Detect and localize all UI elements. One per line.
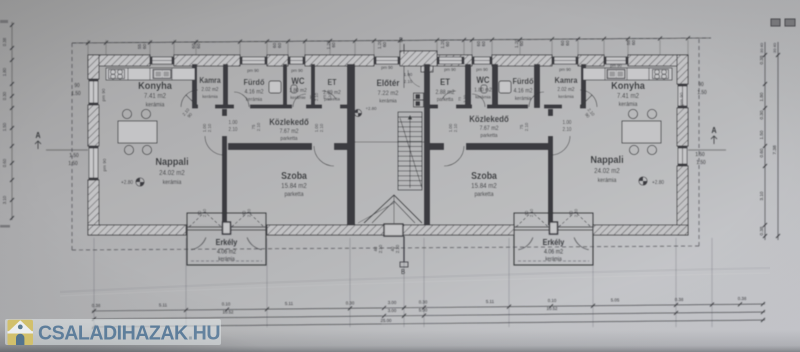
svg-text:Erkély: Erkély xyxy=(216,238,238,248)
right dim chain xyxy=(759,42,780,240)
wall wc-furdo right xyxy=(492,64,498,108)
svg-text:24.02 m2: 24.02 m2 xyxy=(594,168,620,175)
eloter floor line xyxy=(355,141,424,143)
window labels left margin xyxy=(68,83,80,167)
svg-text:90: 90 xyxy=(74,83,79,89)
svg-text:2.88 m2: 2.88 m2 xyxy=(435,90,454,96)
svg-text:1.80: 1.80 xyxy=(759,92,764,101)
stairwell left wall xyxy=(347,64,355,225)
svg-text:1.50: 1.50 xyxy=(69,153,78,159)
left wall xyxy=(88,55,99,235)
erkely label right xyxy=(543,238,565,263)
svg-text:pm 90: pm 90 xyxy=(291,68,303,73)
svg-text:B: B xyxy=(401,269,406,276)
nappali-szoba wall right xyxy=(548,109,553,225)
svg-text:3.10: 3.10 xyxy=(759,191,764,200)
svg-text:30 40: 30 40 xyxy=(759,42,764,53)
svg-text:A: A xyxy=(35,131,41,141)
svg-text:Fürdő: Fürdő xyxy=(244,78,265,88)
left dim chain xyxy=(0,20,14,228)
section marker A left xyxy=(35,131,88,150)
corner shade xyxy=(0,282,400,352)
washbasin furdo left xyxy=(269,81,281,93)
door nappali left xyxy=(205,136,224,155)
door furdo right xyxy=(529,92,544,107)
label konyha left xyxy=(138,81,172,109)
door furdo left xyxy=(234,92,249,107)
porch door post xyxy=(384,224,403,236)
label szoba left xyxy=(281,169,308,198)
pm 90 labels top xyxy=(247,63,622,73)
svg-text:60: 60 xyxy=(565,40,570,46)
balcony door dims right xyxy=(524,208,579,217)
svg-text:pm 90: pm 90 xyxy=(679,92,684,105)
label furdo right xyxy=(513,77,534,103)
dining table left xyxy=(118,109,157,154)
svg-text:2.10: 2.10 xyxy=(529,208,534,217)
bottom wall xyxy=(88,225,688,235)
svg-text:2.10: 2.10 xyxy=(229,127,238,133)
door et left xyxy=(322,91,336,99)
svg-text:2.10: 2.10 xyxy=(256,122,261,131)
svg-text:0.38: 0.38 xyxy=(2,37,7,46)
svg-text:Kamra: Kamra xyxy=(199,76,221,86)
watermark bar xyxy=(5,319,221,345)
top dimension line xyxy=(72,36,711,45)
svg-text:Szoba: Szoba xyxy=(281,169,308,181)
svg-text:15.84 m2: 15.84 m2 xyxy=(281,183,307,190)
svg-text:2.10: 2.10 xyxy=(202,208,207,217)
erkely outline left xyxy=(187,213,266,265)
label furdo left xyxy=(244,78,265,104)
label wc left xyxy=(289,76,307,101)
bottom extension lines xyxy=(94,238,712,327)
svg-text:2.10: 2.10 xyxy=(563,127,572,133)
svg-text:0.60: 0.60 xyxy=(2,158,7,167)
svg-text:7.38: 7.38 xyxy=(772,145,778,155)
stair lower flight xyxy=(358,195,422,223)
label et left xyxy=(323,78,341,102)
svg-text:1.50: 1.50 xyxy=(695,152,704,158)
svg-text:+2.80: +2.80 xyxy=(652,180,664,186)
svg-text:2.10: 2.10 xyxy=(395,244,400,253)
entry door dims xyxy=(404,72,413,84)
door nappali right xyxy=(551,136,570,155)
door wc right xyxy=(472,94,485,107)
svg-text:ET: ET xyxy=(328,78,337,88)
svg-text:7.67 m2: 7.67 m2 xyxy=(479,126,498,132)
svg-text:pm 90: pm 90 xyxy=(381,65,393,70)
right margin top marks xyxy=(771,19,795,26)
svg-text:0.10: 0.10 xyxy=(548,298,557,303)
svg-text:WC: WC xyxy=(291,76,304,87)
svg-text:pm 90: pm 90 xyxy=(247,68,259,73)
svg-text:ET: ET xyxy=(440,77,451,88)
building floor xyxy=(99,66,677,224)
kitchen counter left xyxy=(106,68,195,80)
svg-text:2.10: 2.10 xyxy=(453,123,458,132)
svg-text:kerámia: kerámia xyxy=(619,102,639,108)
svg-text:A: A xyxy=(711,126,717,136)
svg-text:1.80 m2: 1.80 m2 xyxy=(474,87,492,93)
svg-text:parketta: parketta xyxy=(284,192,304,198)
label et right xyxy=(435,77,454,104)
svg-text:24.02 m2: 24.02 m2 xyxy=(159,170,185,177)
erkely outline right xyxy=(514,213,593,265)
level marker eloter xyxy=(354,106,377,117)
svg-text:0.30: 0.30 xyxy=(759,110,764,119)
washbasin furdo right xyxy=(499,81,511,93)
svg-text:2.10: 2.10 xyxy=(404,79,413,84)
svg-text:2.02 m2: 2.02 m2 xyxy=(557,87,574,93)
svg-text:pm 90: pm 90 xyxy=(559,67,571,72)
svg-text:kerámia: kerámia xyxy=(218,256,234,262)
wall furdo-kamra right xyxy=(534,64,540,108)
svg-text:kerámia: kerámia xyxy=(475,94,491,99)
wall wc-et left xyxy=(311,64,315,108)
wall kamra-furdo left xyxy=(223,64,228,108)
svg-text:2.10: 2.10 xyxy=(319,123,324,132)
bottom dim chain 1 xyxy=(92,302,765,313)
svg-text:Szoba: Szoba xyxy=(471,169,498,181)
svg-text:kerámia: kerámia xyxy=(515,96,531,102)
axis B bottom xyxy=(400,236,408,276)
section marker A right xyxy=(688,126,726,150)
top dimension numbers xyxy=(137,39,636,50)
svg-text:kerámie: kerámie xyxy=(290,95,306,100)
svg-text:pm 90: pm 90 xyxy=(444,67,456,72)
wc toilet left xyxy=(291,85,297,93)
svg-text:4.06 m2: 4.06 m2 xyxy=(544,249,563,255)
svg-text:7.22 m2: 7.22 m2 xyxy=(378,90,399,97)
door konyha left xyxy=(181,90,198,107)
wall konyha-kamra left xyxy=(192,64,197,108)
bottom dim numbers 2 xyxy=(223,306,558,315)
label nappali left xyxy=(155,157,189,187)
svg-text:parketta: parketta xyxy=(474,192,494,198)
svg-text:7.67 m2: 7.67 m2 xyxy=(279,129,298,135)
svg-text:5.30: 5.30 xyxy=(419,307,428,312)
stairwell right wall xyxy=(424,64,430,225)
bottom dim chain 2 xyxy=(92,310,765,321)
svg-text:3.10: 3.10 xyxy=(2,195,7,204)
svg-text:0.38: 0.38 xyxy=(759,226,764,235)
balcony door right xyxy=(514,212,593,250)
erkely label left xyxy=(216,238,238,263)
top wall hatched segments xyxy=(88,55,688,66)
svg-text:1.00: 1.00 xyxy=(229,120,238,126)
svg-text:2.10: 2.10 xyxy=(314,92,319,101)
label kamra right xyxy=(554,76,578,99)
bottom dim numbers 1 xyxy=(92,296,747,308)
svg-text:Konyha: Konyha xyxy=(611,81,645,93)
svg-text:kerámia: kerámia xyxy=(379,98,397,104)
svg-text:2.02 m2: 2.02 m2 xyxy=(201,87,218,93)
svg-text:1.50: 1.50 xyxy=(697,90,706,96)
svg-text:2.10: 2.10 xyxy=(462,94,467,103)
svg-text:4.16 m2: 4.16 m2 xyxy=(513,88,532,94)
svg-text:60: 60 xyxy=(382,42,387,48)
level marker nappali right xyxy=(639,177,664,186)
corridor wall left xyxy=(192,105,355,109)
window labels right margin xyxy=(695,82,706,166)
svg-text:0.38: 0.38 xyxy=(738,296,747,301)
svg-text:7.41 m2: 7.41 m2 xyxy=(144,93,167,100)
kitchen counter right xyxy=(583,68,672,80)
label kozlekedo right xyxy=(469,114,509,140)
door et right xyxy=(442,91,456,99)
svg-text:0.38: 0.38 xyxy=(759,55,764,64)
entry door xyxy=(404,66,420,88)
nappali-szoba wall left xyxy=(222,109,227,225)
svg-text:7.41 m2: 7.41 m2 xyxy=(617,93,640,100)
svg-text:kerámia: kerámia xyxy=(545,256,561,262)
svg-text:2.10: 2.10 xyxy=(207,123,212,132)
level marker nappali left xyxy=(121,178,144,186)
svg-text:60: 60 xyxy=(445,41,450,47)
svg-text:Előtér: Előtér xyxy=(377,78,401,89)
watermark house icon xyxy=(8,320,34,345)
svg-text:10.52: 10.52 xyxy=(547,306,558,311)
svg-text:2.10: 2.10 xyxy=(574,208,579,217)
wall furdo-wc left xyxy=(283,64,287,108)
svg-text:pm 90: pm 90 xyxy=(102,158,107,171)
corridor wall right xyxy=(424,105,586,109)
svg-text:WC: WC xyxy=(476,75,489,86)
svg-text:kerámia: kerámia xyxy=(558,94,574,99)
door dim labels left xyxy=(181,92,332,133)
svg-text:pm 90: pm 90 xyxy=(476,67,488,72)
svg-text:+2.80: +2.80 xyxy=(365,106,376,111)
svg-text:1.50: 1.50 xyxy=(71,91,80,97)
staircase xyxy=(398,112,422,190)
entry notch xyxy=(421,66,433,72)
svg-text:Kamra: Kamra xyxy=(554,76,578,86)
door szoba right xyxy=(444,146,464,166)
label nappali right xyxy=(590,155,624,185)
svg-text:parketta: parketta xyxy=(437,97,454,103)
extension lines top xyxy=(88,40,688,55)
balcony door dims left xyxy=(197,208,252,217)
label eloter xyxy=(377,78,401,105)
svg-text:90: 90 xyxy=(698,82,703,88)
wall kamra-konyha right xyxy=(581,64,586,108)
svg-text:2.10: 2.10 xyxy=(524,122,529,131)
svg-text:kerámia: kerámia xyxy=(146,102,166,108)
label kamra left xyxy=(199,76,221,99)
svg-text:2.10: 2.10 xyxy=(327,92,332,101)
svg-text:60: 60 xyxy=(631,40,636,46)
svg-text:1.80: 1.80 xyxy=(2,67,7,76)
svg-text:kerámia: kerámia xyxy=(598,178,618,184)
label konyha right xyxy=(611,81,645,109)
top wall windows xyxy=(150,57,628,64)
wc toilet right xyxy=(481,85,487,93)
door wc left xyxy=(293,94,306,107)
svg-text:4.06 m2: 4.06 m2 xyxy=(217,249,236,255)
svg-text:1.50: 1.50 xyxy=(759,130,764,139)
dining table right xyxy=(622,109,661,154)
svg-text:60: 60 xyxy=(196,43,201,49)
svg-text:0.60: 0.60 xyxy=(759,148,764,157)
wall et-wc right xyxy=(465,64,471,108)
right wall xyxy=(677,55,688,235)
svg-text:kerámia: kerámia xyxy=(246,97,262,103)
svg-text:60: 60 xyxy=(519,41,524,47)
svg-text:0.30: 0.30 xyxy=(2,91,7,100)
door dim labels right xyxy=(448,94,596,133)
svg-text:30 40: 30 40 xyxy=(772,42,777,53)
svg-text:pm 90: pm 90 xyxy=(610,63,622,68)
svg-text:60: 60 xyxy=(331,42,336,48)
svg-text:CSALADIHAZAK.HU: CSALADIHAZAK.HU xyxy=(38,323,220,345)
dashed roof outline xyxy=(72,38,711,43)
svg-text:Nappali: Nappali xyxy=(155,157,189,169)
svg-text:5.11: 5.11 xyxy=(486,299,495,304)
label kozlekedo left xyxy=(269,117,309,143)
porch dims xyxy=(373,244,400,253)
svg-text:60: 60 xyxy=(142,43,147,49)
eltoter cabinets xyxy=(414,93,424,107)
svg-text:1.00: 1.00 xyxy=(404,72,413,77)
svg-text:Közlekedő: Közlekedő xyxy=(269,117,309,128)
svg-text:Közlekedő: Közlekedő xyxy=(469,114,509,125)
svg-text:1.80 m2: 1.80 m2 xyxy=(289,88,307,94)
label szoba right xyxy=(471,169,498,198)
svg-text:2.10: 2.10 xyxy=(247,208,252,217)
balcony door left xyxy=(187,212,266,250)
svg-text:kerámia: kerámia xyxy=(163,180,183,186)
svg-text:pm 90: pm 90 xyxy=(101,88,106,101)
door szoba left xyxy=(314,146,334,166)
svg-text:1.50: 1.50 xyxy=(68,161,77,167)
svg-text:60: 60 xyxy=(277,42,282,48)
svg-text:0.30: 0.30 xyxy=(419,299,428,304)
svg-text:+2.80: +2.80 xyxy=(121,180,133,186)
svg-text:5.05: 5.05 xyxy=(611,297,620,302)
paper crease shadow xyxy=(60,268,770,292)
svg-text:parketta: parketta xyxy=(280,136,297,142)
svg-text:2.10: 2.10 xyxy=(378,244,383,253)
svg-text:Fürdő: Fürdő xyxy=(513,77,534,87)
stairwell bump wall xyxy=(400,51,437,66)
svg-text:kerámia: kerámia xyxy=(202,94,218,99)
svg-text:4.16 m2: 4.16 m2 xyxy=(244,89,263,95)
svg-text:Konyha: Konyha xyxy=(138,81,172,93)
svg-text:parketta: parketta xyxy=(480,133,497,139)
svg-text:15.84 m2: 15.84 m2 xyxy=(471,183,497,190)
szoba top wall left xyxy=(228,143,352,150)
door konyha right xyxy=(580,90,597,107)
svg-text:1.50: 1.50 xyxy=(696,160,705,166)
axis B top xyxy=(399,37,404,54)
label wc right xyxy=(474,75,492,100)
szoba top wall right xyxy=(424,143,553,150)
svg-text:60: 60 xyxy=(481,41,486,47)
svg-text:Nappali: Nappali xyxy=(590,155,624,167)
svg-text:1.00: 1.00 xyxy=(563,120,572,126)
svg-text:Erkély: Erkély xyxy=(543,238,565,248)
svg-text:1.50: 1.50 xyxy=(2,122,7,131)
bottom dim chain 3 xyxy=(92,318,765,329)
